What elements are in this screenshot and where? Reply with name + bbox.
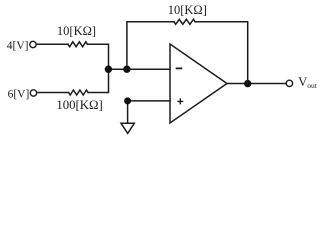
wire 4V input to R1 (37, 43, 68, 45)
op-amp U1 triangle (170, 44, 227, 123)
svg-text:6[V]: 6[V] (8, 88, 30, 100)
wire R1 to node A (down) (88, 44, 109, 69)
wire non-inverting input from node C (128, 100, 170, 102)
resistor R1 10[KOhm] zigzag (68, 42, 87, 47)
node A junction dot (105, 66, 112, 73)
node B junction dot (123, 66, 130, 73)
svg-text:4[V]: 4[V] (7, 40, 29, 52)
resistor R2 100[KOhm] zigzag (69, 90, 88, 95)
svg-text:Vout: Vout (298, 75, 318, 90)
terminal 6V (30, 90, 36, 96)
output node junction dot (244, 80, 251, 87)
resistor R3 10[KOhm] zigzag (feedback) (174, 19, 195, 24)
node C junction dot (124, 97, 131, 104)
terminal Vout (286, 80, 292, 86)
wire feedback: node B up, across top, down to output node (127, 22, 174, 69)
svg-text:10[KΩ]: 10[KΩ] (168, 3, 207, 17)
terminal 4V (30, 41, 36, 47)
svg-text:100[KΩ]: 100[KΩ] (56, 98, 102, 112)
svg-text:10[KΩ]: 10[KΩ] (57, 24, 96, 38)
wire node A to inverting input (109, 68, 171, 70)
wire R3 to right, down to output node (195, 22, 248, 84)
wire 6V input to R2 (37, 92, 68, 94)
op-amp minus sign (176, 67, 183, 69)
wire op-amp output (227, 83, 286, 85)
wire R2 up to node A (88, 69, 108, 92)
op-amp plus sign (177, 98, 183, 104)
ground (121, 123, 134, 133)
wire node C down to ground (127, 101, 129, 123)
